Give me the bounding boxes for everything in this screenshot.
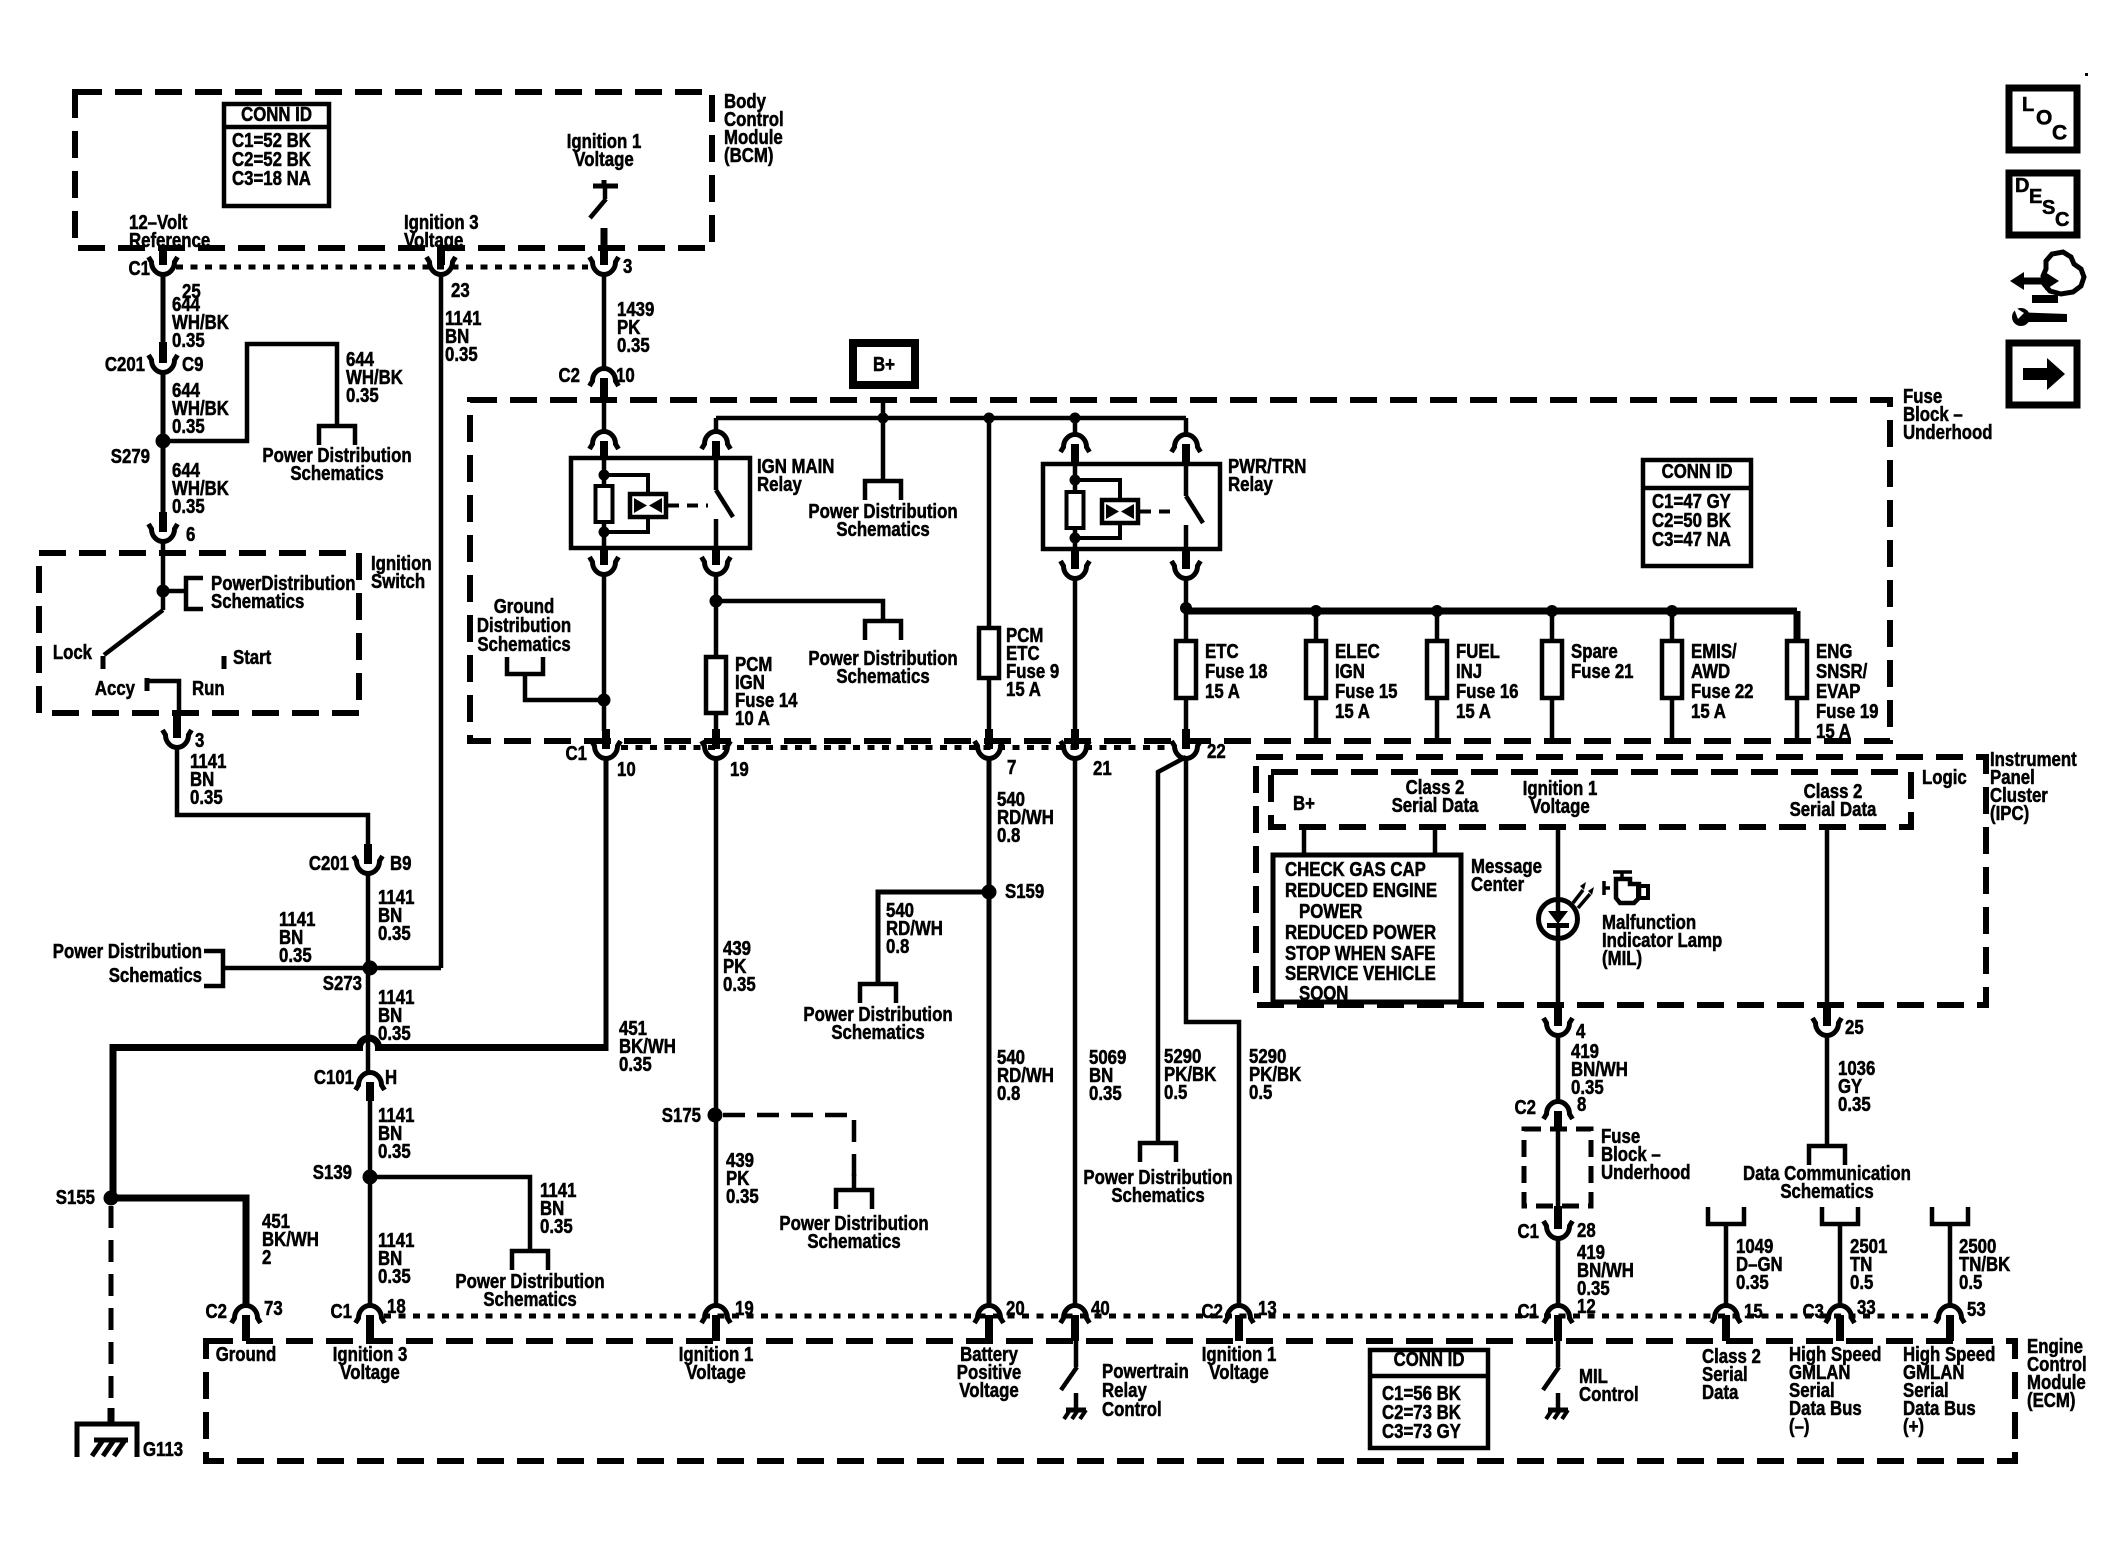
wire bus to ETC fuse 18: [1184, 611, 1189, 641]
connector pin 22 (fuse block bottom): [1182, 729, 1190, 749]
wire MIL lamp to IPC pin 4: [1556, 938, 1561, 1005]
off-page source bracket for 2500 TN/BK: [1932, 1207, 1968, 1224]
off-page source bracket for 1049 D-GN: [1708, 1207, 1744, 1224]
wire below fuse 19 to block edge: [1795, 698, 1800, 738]
svg-text:C9: C9: [182, 352, 203, 375]
relay IGN MAIN coil pin connector: [590, 432, 619, 450]
branch wire from S139 to Power Distribution reference: [370, 1177, 530, 1251]
wire B+ drop to message center: [1302, 827, 1307, 857]
svg-text:3: 3: [195, 728, 204, 751]
connector row dotted line fuse block bottom: [621, 745, 1170, 750]
wire bus drop to PWR/TRN coil: [1073, 418, 1078, 435]
wire below fuse to block edge: [1435, 698, 1440, 738]
module box Engine Control Module (ECM): [206, 1341, 2015, 1461]
svg-text:Schematics: Schematics: [807, 1229, 900, 1252]
relay coil winding symbol: [1102, 500, 1138, 523]
connector C1 pin 18 (ECM Ignition 3 Voltage): [356, 1306, 385, 1323]
svg-text:Underhood: Underhood: [1601, 1160, 1691, 1183]
svg-text:0.35: 0.35: [1838, 1092, 1871, 1115]
svg-text:REDUCED ENGINE: REDUCED ENGINE: [1285, 878, 1437, 901]
svg-text:E: E: [2029, 186, 2042, 208]
wire fuse 18 to connector 22: [1184, 698, 1189, 731]
svg-text:0.35: 0.35: [378, 1139, 411, 1162]
svg-text:C201: C201: [309, 851, 349, 874]
wire 451 BK/WH from IGN MAIN coil to fuse block bottom: [602, 572, 607, 731]
wire 5290 PK/BK from connector 22 to ECM pin 13: [1186, 758, 1239, 1306]
svg-text:C2: C2: [1515, 1095, 1536, 1118]
connector pin 40 (ECM Powertrain Relay Control): [1061, 1305, 1090, 1323]
svg-text:POWER: POWER: [1299, 899, 1362, 922]
wire horizontal run to S155 with hop over 1141 wire: [113, 1038, 606, 1048]
connector pin 23 (BCM Ignition 3 Voltage): [437, 246, 445, 265]
svg-text:Control: Control: [1102, 1397, 1162, 1420]
svg-text:0.35: 0.35: [190, 785, 223, 808]
wire 644 WH/BK from C1 to C201: [161, 272, 166, 346]
check engine icon: [1604, 881, 1610, 895]
junction IGN MAIN output tap: [710, 595, 723, 608]
fuse ELEC: [1306, 641, 1326, 698]
svg-text:Run: Run: [192, 676, 225, 699]
connector row dotted line ECM top: [384, 1314, 1934, 1319]
icon vehicle with double arrow and wrench: [2043, 252, 2084, 294]
connector C2 pin 73 (ECM Ground): [232, 1305, 261, 1323]
svg-text:CONN ID: CONN ID: [241, 102, 312, 125]
wire ignition switch feed to pivot: [161, 553, 166, 591]
fuse PCM IGN Fuse 14 10 A: [706, 657, 726, 713]
reference bracket PowerDistribution Schematics (ignition switch): [186, 578, 203, 609]
wire 5069 BN from connector 21 to ECM pin 40: [1073, 758, 1078, 1306]
svg-text:15 A: 15 A: [1205, 679, 1240, 702]
icon DESC box: [2009, 173, 2077, 235]
wire 1049 D-GN to ECM pin 15: [1724, 1224, 1729, 1308]
svg-text:Schematics: Schematics: [290, 461, 383, 484]
reference bracket Power Distribution Schematics (left of S273): [204, 951, 223, 986]
svg-text:0.35: 0.35: [172, 414, 205, 437]
junction fuse bus tap x=1437: [1431, 605, 1443, 617]
svg-text:15 A: 15 A: [1006, 677, 1041, 700]
svg-text:Serial Data: Serial Data: [1392, 793, 1479, 816]
wire 1141 BN from S273 to C101: [366, 968, 371, 1073]
svg-text:21: 21: [1093, 756, 1112, 779]
svg-text:19: 19: [735, 1296, 754, 1319]
wire 2501 TN to ECM pin 33: [1838, 1224, 1843, 1308]
connector pin 15 (ECM Class 2 Serial Data): [1712, 1305, 1741, 1323]
svg-text:B+: B+: [1293, 791, 1315, 814]
wire B+ tap to Power Distribution reference: [881, 418, 886, 481]
relay PWR/TRN coil pin connector: [1061, 434, 1090, 452]
svg-text:D: D: [2015, 175, 2029, 197]
connector C1 pin 25 (BCM 12-Volt Reference): [160, 248, 167, 250]
svg-text:53: 53: [1967, 1297, 1986, 1320]
relay PWR/TRN switch pin connector: [1172, 434, 1201, 452]
svg-text:REDUCED POWER: REDUCED POWER: [1285, 920, 1436, 943]
svg-text:15 A: 15 A: [1816, 719, 1851, 742]
svg-text:20: 20: [1006, 1296, 1025, 1319]
svg-text:Power Distribution: Power Distribution: [53, 939, 202, 962]
junction fuse bus tap x=1316: [1310, 605, 1322, 617]
svg-text:C3: C3: [1803, 1299, 1824, 1322]
off-page reference Power Distribution Schematics (S139 branch): [512, 1251, 548, 1270]
svg-text:B9: B9: [390, 851, 411, 874]
svg-text:C1: C1: [566, 741, 587, 764]
svg-text:13: 13: [1258, 1296, 1277, 1319]
splice S175: [708, 1108, 723, 1123]
svg-text:H: H: [385, 1065, 397, 1088]
svg-text:0.35: 0.35: [617, 333, 650, 356]
lamp MIL LED symbol: [1539, 900, 1578, 939]
svg-text:12: 12: [1577, 1294, 1596, 1317]
relay PWR/TRN coil output connector: [1071, 550, 1079, 569]
wire 2500 TN/BK to ECM pin 53: [1948, 1224, 1953, 1308]
svg-text:Voltage: Voltage: [574, 147, 633, 170]
svg-text:Relay: Relay: [1228, 472, 1273, 495]
svg-text:0.35: 0.35: [1571, 1075, 1604, 1098]
connector pin 3 (ignition switch output): [173, 713, 181, 738]
off-page reference Power Distribution Schematics (B+ tap): [865, 481, 901, 500]
fuse ETC Fuse 18 15 A: [1176, 641, 1196, 698]
svg-text:S279: S279: [111, 444, 150, 467]
connector pin 4 (IPC): [1554, 1003, 1562, 1026]
svg-text:S155: S155: [56, 1185, 95, 1208]
wire S273 to S139 splice column: [368, 966, 441, 971]
svg-text:10 A: 10 A: [735, 706, 770, 729]
svg-text:Voltage: Voltage: [686, 1360, 745, 1383]
svg-text:Voltage: Voltage: [1209, 1360, 1268, 1383]
wire 1141 BN from BCM pin 23 down to S273: [439, 272, 444, 968]
connector C3 pin 33 (ECM High Speed GMLAN -): [1826, 1305, 1855, 1323]
svg-text:Logic: Logic: [1922, 765, 1967, 788]
fuse Spare: [1542, 641, 1562, 698]
svg-text:C201: C201: [105, 352, 145, 375]
coil bypass loop: [1075, 480, 1120, 538]
svg-text:23: 23: [451, 278, 470, 301]
wire 1036 GY from IPC pin 25 to Data Communication reference: [1825, 1033, 1830, 1146]
dashed branch from S175 to Power Distribution reference: [723, 1115, 854, 1180]
connector pin 20 (ECM Battery Positive Voltage): [975, 1305, 1004, 1323]
svg-text:Schematics: Schematics: [831, 1020, 924, 1043]
junction fuse bus tap x=1672: [1666, 605, 1678, 617]
connector C2 pin 10 (inline): [590, 369, 619, 387]
relay IGN MAIN switch contacts: [714, 458, 719, 490]
svg-text:Voltage: Voltage: [404, 228, 463, 251]
svg-text:Voltage: Voltage: [340, 1360, 399, 1383]
svg-text:10: 10: [616, 363, 635, 386]
wire 1141 BN from S139 to ECM pin 18: [368, 1177, 373, 1306]
svg-text:C: C: [2055, 209, 2069, 231]
wire below fuse to block edge: [1550, 698, 1555, 738]
wire 644 WH/BK from C201 to S279: [161, 370, 166, 441]
svg-text:33: 33: [1857, 1295, 1876, 1318]
wire 419 BN/WH from C1-28 to ECM pin 12: [1556, 1236, 1561, 1306]
svg-text:0.5: 0.5: [1249, 1080, 1272, 1103]
wire 1439 PK from BCM pin 3 to C2: [602, 272, 607, 369]
connector C201 pin C9: [159, 342, 167, 363]
svg-text:0.8: 0.8: [997, 823, 1020, 846]
svg-text:S273: S273: [323, 971, 362, 994]
svg-text:Start: Start: [233, 645, 271, 668]
svg-text:Reference: Reference: [129, 228, 210, 251]
wire 1036 GY from IPC logic to pin 25: [1825, 827, 1830, 1005]
connector pin 19 (fuse block bottom): [712, 729, 720, 749]
switch inside BCM for Ignition 1 Voltage: [593, 184, 618, 189]
wire below fuse to block edge: [1314, 698, 1319, 738]
svg-text:Control: Control: [1579, 1382, 1639, 1405]
splice S273: [363, 961, 378, 976]
svg-text:0.35: 0.35: [172, 328, 205, 351]
svg-text:0.35: 0.35: [1736, 1270, 1769, 1293]
icon forward arrow box: [2009, 343, 2077, 405]
off-page reference Power Distribution Schematics (IGN output): [865, 621, 901, 640]
wire 439 PK from S175 to ECM pin 19: [714, 1115, 719, 1306]
wire from Ground Distribution reference to main wire: [525, 674, 604, 700]
svg-text:0.35: 0.35: [378, 921, 411, 944]
wire 451 BK/WH from connector C1-10 down: [604, 758, 609, 1051]
branch wire from S159 to Power Distribution reference: [878, 892, 989, 984]
svg-text:7: 7: [1007, 755, 1016, 778]
switch blade to Lock contact: [161, 591, 166, 610]
ground G113 symbol: [108, 1408, 115, 1424]
splice S159: [982, 885, 997, 900]
svg-text:G113: G113: [143, 1437, 183, 1460]
coil bypass loop: [604, 475, 648, 532]
svg-text:Lock: Lock: [53, 640, 93, 663]
wire Class 2 drop to message center: [1433, 827, 1438, 857]
connector pin 3 (BCM Ignition 1 Voltage): [600, 246, 608, 265]
wire fuse 9 to connector 7: [987, 678, 992, 731]
wire from IGN MAIN switch output to fuse 14: [714, 572, 719, 657]
svg-text:(ECM): (ECM): [2027, 1388, 2075, 1411]
table CONN ID (ECM) C1=56 BK C2=73 BK C3=73 GY: [1370, 1350, 1488, 1448]
svg-text:C1: C1: [129, 256, 150, 279]
svg-text:22: 22: [1207, 739, 1226, 762]
junction pivot of ignition switch: [157, 585, 170, 598]
svg-text:8: 8: [1577, 1092, 1586, 1115]
svg-text:0.8: 0.8: [886, 934, 909, 957]
relay IGN MAIN switch pin connector: [714, 418, 719, 432]
svg-text:C2: C2: [206, 1299, 227, 1322]
svg-text:Schematics: Schematics: [109, 963, 202, 986]
light emission arrows: [1573, 890, 1590, 908]
svg-text:Schematics: Schematics: [211, 589, 304, 612]
wire from tap to Power Distribution reference: [716, 601, 883, 621]
resistor in IGN MAIN relay: [596, 486, 613, 522]
wire 1141 BN from ignition switch to C201 B9: [177, 745, 368, 846]
power feed B+ box: [853, 343, 915, 385]
svg-text:SOON: SOON: [1299, 981, 1348, 1004]
wire 644 WH/BK from S279 to ignition switch pin 6: [161, 441, 166, 514]
svg-text:0.8: 0.8: [997, 1081, 1020, 1104]
svg-text:S159: S159: [1005, 879, 1044, 902]
svg-text:Schematics: Schematics: [1780, 1179, 1873, 1202]
relay IGN MAIN coil wire: [602, 458, 607, 548]
svg-text:CHECK GAS CAP: CHECK GAS CAP: [1285, 857, 1426, 880]
junction ground distribution tap: [598, 694, 611, 707]
svg-text:15 A: 15 A: [1456, 699, 1491, 722]
relay IGN MAIN switch output connector: [712, 548, 720, 565]
svg-text:Serial Data: Serial Data: [1790, 797, 1877, 820]
svg-text:L: L: [2022, 94, 2034, 116]
driver switch inside ECM for MIL Control: [1556, 1341, 1561, 1367]
svg-text:25: 25: [1845, 1015, 1864, 1038]
svg-text:Relay: Relay: [757, 472, 802, 495]
svg-text:10: 10: [617, 757, 636, 780]
svg-text:Accy: Accy: [95, 676, 136, 699]
svg-text:15: 15: [1744, 1299, 1763, 1322]
svg-text:C2: C2: [559, 363, 580, 386]
off-page source bracket for 2501 TN: [1822, 1207, 1858, 1224]
relay PWR/TRN switch output connector: [1182, 550, 1190, 569]
dashed wire from S155 to ground G113: [109, 1206, 114, 1410]
wire Ignition 1 Voltage drop to MIL lamp: [1556, 827, 1561, 902]
svg-text:73: 73: [264, 1296, 283, 1319]
off-page reference Power Distribution Schematics (S175 branch): [836, 1190, 872, 1209]
wire bus to fuse: [1550, 611, 1555, 641]
connector pin 7 (fuse block bottom): [985, 729, 993, 749]
svg-text:Schematics: Schematics: [477, 632, 570, 655]
svg-text:Switch: Switch: [371, 569, 425, 592]
wire 540 RD/WH from connector 7 to S159: [987, 758, 992, 892]
connector pin 21 (fuse block bottom): [1071, 729, 1079, 749]
relay mechanical link (dashed): [1140, 510, 1178, 514]
wire 1141 BN from C101 to S139: [368, 1099, 373, 1177]
svg-text:C1: C1: [1518, 1299, 1539, 1322]
svg-text:40: 40: [1091, 1296, 1110, 1319]
module box Instrument Panel Cluster (IPC): [1256, 757, 1986, 1005]
wire 540 RD/WH from S159 to ECM pin 20: [987, 892, 992, 1306]
wire below fuse to block edge: [1670, 698, 1675, 738]
svg-text:C1: C1: [1518, 1219, 1539, 1242]
svg-text:2: 2: [262, 1245, 271, 1268]
wire from reference to S273: [223, 966, 368, 971]
svg-text:0.35: 0.35: [378, 1021, 411, 1044]
svg-text:0.35: 0.35: [1089, 1081, 1122, 1104]
svg-text:S175: S175: [662, 1103, 701, 1126]
relay IGN MAIN box: [571, 458, 750, 548]
svg-text:CONN ID: CONN ID: [1662, 459, 1733, 482]
svg-text:CONN ID: CONN ID: [1394, 1347, 1465, 1370]
wire 419 BN/WH from IPC pin 4 to C2: [1556, 1033, 1561, 1102]
resistor in PWR/TRN relay: [1067, 492, 1084, 528]
svg-text:(MIL): (MIL): [1602, 946, 1642, 969]
svg-text:C3=73 GY: C3=73 GY: [1382, 1419, 1461, 1442]
svg-text:C101: C101: [314, 1065, 354, 1088]
wire 1141 BN from B9 to S273: [366, 871, 371, 968]
svg-text:0.35: 0.35: [619, 1052, 652, 1075]
svg-text:Data: Data: [1702, 1380, 1739, 1403]
wire through fuse block: [1556, 1128, 1561, 1208]
driver switch inside ECM for Powertrain Relay Control: [1074, 1341, 1079, 1367]
svg-text:Schematics: Schematics: [836, 664, 929, 687]
stray dot: [2085, 73, 2088, 76]
connector C1 pin 12 (ECM MIL Control): [1544, 1305, 1573, 1323]
connector C101 pin H: [356, 1073, 385, 1090]
fuse ENG SNSR/EVAP Fuse 19 15 A: [1787, 641, 1807, 698]
svg-text:0.5: 0.5: [1850, 1270, 1873, 1293]
svg-text:15 A: 15 A: [1335, 699, 1370, 722]
svg-text:0.35: 0.35: [726, 1184, 759, 1207]
svg-text:(–): (–): [1789, 1414, 1810, 1437]
svg-text:Voltage: Voltage: [1530, 794, 1589, 817]
svg-text:C3=18 NA: C3=18 NA: [232, 166, 311, 189]
wire 451 BK/WH 2 from S155 to ECM ground pin: [111, 1198, 246, 1306]
svg-text:19: 19: [730, 757, 749, 780]
svg-text:18: 18: [387, 1294, 406, 1317]
wire 5290 PK/BK diagonal branch from connector 22: [1158, 757, 1186, 1141]
connector pin 19 (ECM Ignition 1 Voltage): [702, 1305, 731, 1323]
svg-text:Voltage: Voltage: [959, 1378, 1018, 1401]
module box Ignition Switch: [39, 553, 359, 713]
svg-text:C: C: [2052, 122, 2067, 145]
wire branch from S279 to Power Distribution reference: [163, 344, 337, 441]
contact Lock: [101, 656, 106, 669]
module box Fuse Block - Underhood (pass-through): [1524, 1129, 1591, 1206]
svg-text:Schematics: Schematics: [483, 1287, 576, 1310]
connector pin 6 (ignition switch): [159, 512, 167, 532]
svg-text:0.35: 0.35: [723, 972, 756, 995]
svg-text:0.35: 0.35: [378, 1264, 411, 1287]
connector C2 pin 13 (ECM Ignition 1 Voltage): [1225, 1305, 1254, 1323]
off-page reference Power Distribution Schematics (5290): [1140, 1143, 1176, 1162]
wire PWR/TRN switch output to fuse bus: [1184, 576, 1189, 611]
off-page reference Power Distribution Schematics (S159 branch): [860, 984, 896, 1003]
wire into fuse block to IGN MAIN relay coil: [602, 396, 607, 432]
relay IGN MAIN coil output connector: [600, 548, 608, 565]
svg-text:S: S: [2042, 197, 2055, 219]
wire from fuse 14 to connector 19: [714, 713, 719, 731]
connector C1 pin 10 (fuse block bottom): [602, 729, 610, 749]
svg-text:O: O: [2036, 107, 2052, 130]
svg-text:Underhood: Underhood: [1903, 420, 1993, 443]
wire 5069 BN from PWR/TRN coil to connector 21: [1073, 576, 1078, 731]
contact Accy: [145, 678, 150, 691]
svg-text:Schematics: Schematics: [1111, 1183, 1204, 1206]
junction bus tap fuse 9: [984, 413, 995, 424]
relay PWR/TRN switch contacts: [1184, 464, 1189, 496]
wire down to S155: [110, 1044, 117, 1198]
relay PWR/TRN box: [1043, 464, 1220, 549]
svg-text:0.35: 0.35: [172, 494, 205, 517]
table CONN ID (BCM) C1=52 BK C2=52 BK C3=18 NA: [224, 104, 329, 206]
module box BCM (Body Control Module): [75, 92, 712, 248]
svg-text:Center: Center: [1471, 872, 1524, 895]
junction PWR/TRN coil bus tap: [1070, 413, 1081, 424]
junction fuse bus tap x=1552: [1546, 605, 1558, 617]
svg-text:Fuse 21: Fuse 21: [1571, 659, 1634, 682]
relay PWR/TRN coil wire: [1073, 464, 1078, 549]
wire from B+ bus to PCM ETC fuse 9: [987, 418, 992, 628]
wire bus right end to ENG SNSR fuse: [1794, 611, 1801, 641]
wire bus to fuse: [1435, 611, 1440, 641]
fuse EMIS/: [1662, 641, 1682, 698]
relay coil winding symbol: [630, 494, 666, 517]
svg-text:0.5: 0.5: [1164, 1080, 1187, 1103]
svg-text:B+: B+: [873, 352, 895, 375]
junction coil bottom: [599, 527, 610, 538]
svg-text:6: 6: [186, 522, 195, 545]
svg-text:C2: C2: [1202, 1299, 1223, 1322]
reference bracket Ground Distribution Schematics: [507, 657, 543, 674]
wire B+ bus: [716, 416, 1186, 421]
wire B+ drop to bus: [881, 399, 886, 418]
svg-text:(BCM): (BCM): [724, 143, 773, 166]
svg-text:Ground: Ground: [216, 1342, 277, 1365]
off-page reference to Power Distribution Schematics: [319, 426, 355, 445]
off-page reference Data Communication Schematics: [1809, 1146, 1845, 1165]
wire bus to fuse: [1670, 611, 1675, 641]
connector row dotted line BCM: [176, 265, 588, 270]
contact Start: [222, 656, 227, 669]
svg-text:0.35: 0.35: [540, 1214, 573, 1237]
